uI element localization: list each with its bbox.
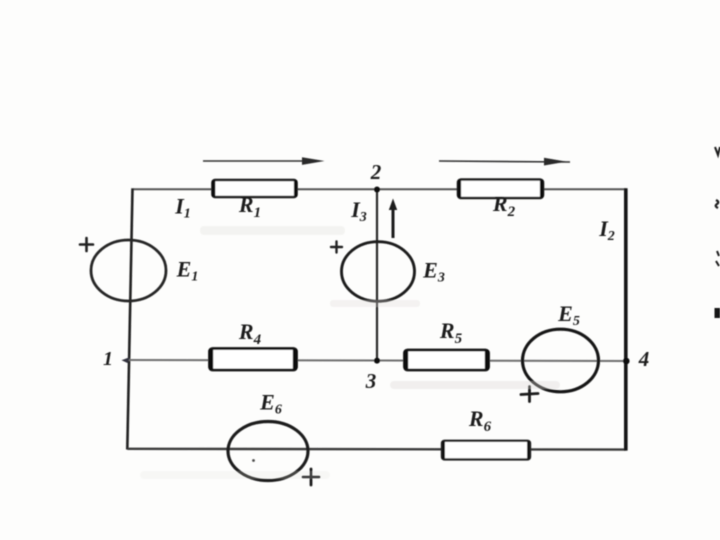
svg-text:3: 3: [365, 369, 377, 393]
current arrow above R1: [203, 157, 325, 165]
wire center branch (node 2 through E3 down to node 3): [376, 189, 378, 361]
resistor R5: [405, 350, 489, 370]
node 3 junction dot: [374, 358, 380, 364]
faint scan smudge under R1 label: [200, 226, 345, 235]
resistor R1: [213, 180, 297, 197]
source E1 (circle): [91, 240, 166, 301]
plus sign of E3: [331, 242, 342, 253]
page-edge clipped glyph (right margin, second): [716, 200, 719, 208]
node 1 junction dot: [122, 357, 130, 363]
source E3 (circle): [342, 242, 415, 302]
node 2 junction dot: [374, 187, 380, 193]
wire bottom horizontal: [127, 448, 626, 451]
source E5 (circle): [523, 329, 599, 392]
page-edge clipped glyph (right margin, fourth bold): [715, 308, 720, 318]
faint scan smudge above R4: [330, 300, 420, 307]
speck inside E6: [252, 459, 255, 462]
page-edge clipped glyph (right margin, top): [715, 147, 720, 155]
wire left vertical (through E1, from top-left corner down to bottom wire): [127, 188, 132, 449]
source E6 (circle): [228, 422, 308, 481]
faint scan smudge bottom left: [140, 471, 330, 479]
node 4 junction dot: [623, 358, 630, 365]
plus sign of E6: [303, 469, 319, 485]
plus sign of E5: [521, 387, 538, 402]
plus sign of E1: [80, 238, 93, 251]
current arrow I3 (vertical, pointing up): [389, 199, 397, 239]
faint scan smudge right of node 3: [390, 381, 560, 389]
resistor R6: [442, 441, 530, 460]
resistor R4: [210, 349, 297, 371]
page-edge clipped glyph (right margin, third): [716, 251, 719, 266]
svg-text:4: 4: [638, 347, 650, 371]
svg-text:1: 1: [103, 348, 113, 370]
wire top (node area from top-left corner to top-right corner): [133, 188, 626, 190]
current arrow above R2: [439, 158, 570, 166]
resistor R2: [458, 180, 543, 199]
wire right vertical (thick): [624, 188, 628, 450]
svg-text:2: 2: [370, 160, 382, 184]
wire middle horizontal (node 1 to node 4): [127, 360, 626, 361]
